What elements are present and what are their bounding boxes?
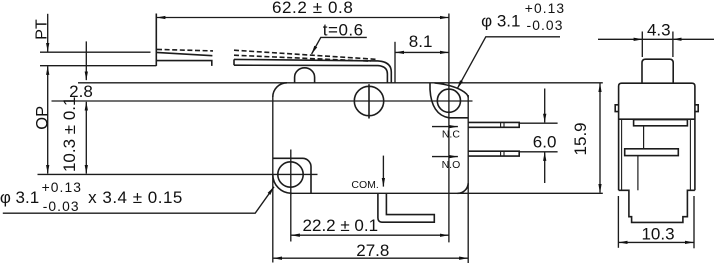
switch body outline xyxy=(467,95,469,263)
top phi3.1 leader xyxy=(457,37,560,89)
4.3 dimension left arrow xyxy=(598,38,642,40)
body bottom-left boss arc xyxy=(273,175,292,194)
mounting hole circle C3 (bottom left) xyxy=(278,162,303,187)
4.3 dimension middle segment xyxy=(642,38,673,40)
end view body xyxy=(619,83,695,190)
svg-text:N.O: N.O xyxy=(442,159,461,171)
lever tip edge xyxy=(155,14,157,66)
lever tip bar xyxy=(156,61,212,66)
bottom phi3.1 leader xyxy=(3,187,274,213)
hole centerline top xyxy=(52,100,473,102)
C1 vertical crosshair xyxy=(368,84,370,118)
4.3 right extension line xyxy=(672,32,674,58)
body bottom edge merged with 15.9 bottom extension xyxy=(292,192,603,194)
free position line xyxy=(40,51,151,53)
6.0 lower extension line xyxy=(520,151,558,153)
hole centerline bottom xyxy=(38,173,318,175)
62.2 dimension line xyxy=(157,17,449,19)
8.1 left extension line xyxy=(394,42,396,83)
4.3 dimension right arrow xyxy=(673,38,714,40)
svg-text:62.2 ± 0.8: 62.2 ± 0.8 xyxy=(272,0,354,17)
svg-text:t=0.6: t=0.6 xyxy=(323,21,364,40)
15.9 dimension line xyxy=(599,84,601,193)
svg-text:22.2 ± 0.1: 22.2 ± 0.1 xyxy=(303,216,379,235)
lever break edge xyxy=(233,59,235,65)
lever tip dashed free position xyxy=(157,49,213,51)
mounting hole circle C1 (center plunger base) xyxy=(354,86,383,115)
long right extension line through C2 xyxy=(448,14,450,243)
svg-text:COM.: COM. xyxy=(351,179,378,191)
svg-text:PT: PT xyxy=(34,19,51,40)
section divider line xyxy=(619,118,695,120)
inset vertical right xyxy=(689,119,691,190)
body top edge with left extension line xyxy=(78,82,603,84)
N.O terminal tab xyxy=(468,151,519,156)
connecting vertical xyxy=(643,126,645,149)
10.3 dimension line xyxy=(619,241,694,243)
upper internal bar xyxy=(634,120,688,126)
left side notch xyxy=(615,105,618,112)
mounting hole circle C2 (top right) xyxy=(437,89,460,112)
bottom stepped block xyxy=(619,190,695,222)
svg-text:-0.03: -0.03 xyxy=(527,18,564,33)
COM terminal L-bracket xyxy=(378,194,434,223)
lever main bottom edge with elbow xyxy=(234,65,387,83)
operating position line xyxy=(40,65,156,67)
svg-text:+0.13: +0.13 xyxy=(525,1,565,16)
plunger dome xyxy=(295,68,315,83)
lower vertical xyxy=(637,156,639,191)
10.3 right extension line xyxy=(693,196,695,248)
lever main top edge with elbow xyxy=(234,59,391,82)
body left edge merged with 27.8 left extension xyxy=(272,97,274,263)
svg-text:-0.03: -0.03 xyxy=(43,199,80,214)
COM arrow xyxy=(382,156,384,187)
PT dimension line upper xyxy=(47,14,49,52)
N.O arrow xyxy=(432,156,458,158)
svg-text:OP: OP xyxy=(33,106,51,130)
svg-text:8.1: 8.1 xyxy=(409,32,433,51)
t=0.6 leader xyxy=(312,37,367,54)
svg-text:4.3: 4.3 xyxy=(647,20,671,39)
svg-text:10.3 ± 0.1: 10.3 ± 0.1 xyxy=(60,97,79,173)
svg-text:27.8: 27.8 xyxy=(356,241,389,260)
internal contour around C2 xyxy=(430,83,468,118)
6.0 upper extension line xyxy=(520,122,558,124)
22.2 dimension line xyxy=(291,234,448,236)
8.1 dimension line xyxy=(395,51,448,53)
6.0 lower arrow xyxy=(544,152,546,183)
body top-right corner arc xyxy=(435,83,469,98)
lever main dashed free position bottom xyxy=(234,55,371,61)
C3 boss outline xyxy=(273,158,311,193)
lever main dashed free position top xyxy=(234,50,376,59)
4.3 left extension line xyxy=(641,32,643,58)
N.C arrow xyxy=(432,126,458,128)
svg-text:φ 3.1: φ 3.1 xyxy=(0,188,39,207)
10.3 dimension line xyxy=(85,102,87,174)
2.8 dimension line xyxy=(85,41,87,80)
svg-text:10.3: 10.3 xyxy=(641,224,674,243)
OP dimension line xyxy=(47,66,49,173)
inset vertical left xyxy=(621,119,623,190)
right side notch xyxy=(695,105,698,112)
svg-text:+0.13: +0.13 xyxy=(42,180,82,195)
svg-text:N.C: N.C xyxy=(442,129,461,141)
svg-text:15.9: 15.9 xyxy=(571,122,590,155)
body top-left corner arc xyxy=(273,83,287,97)
svg-text:φ 3.1: φ 3.1 xyxy=(481,11,520,30)
svg-text:x 3.4 ± 0.15: x 3.4 ± 0.15 xyxy=(88,188,183,207)
body bottom-right corner arc xyxy=(458,183,469,193)
lever tip top edge (operating, tilted) xyxy=(156,52,212,55)
27.8 dimension line xyxy=(273,257,468,259)
N.C terminal tab xyxy=(468,122,519,127)
lower internal bar xyxy=(625,149,679,156)
6.0 upper arrow xyxy=(544,89,546,123)
22.2 left extension (C3 vertical crosshair) xyxy=(290,150,292,242)
svg-text:6.0: 6.0 xyxy=(533,133,557,152)
10.3 left extension line xyxy=(617,196,619,248)
plunger button xyxy=(642,59,673,83)
